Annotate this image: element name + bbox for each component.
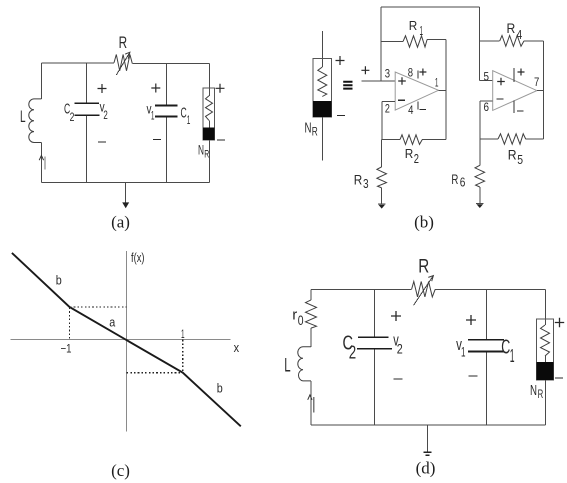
- svg-text:R: R: [354, 172, 363, 188]
- svg-text:7: 7: [534, 75, 540, 89]
- wire top-left (d): [311, 288, 412, 290]
- plus NR (a): [216, 84, 225, 93]
- top wire joining both stages: [381, 6, 479, 8]
- svg-text:R: R: [312, 125, 318, 139]
- ground (d): [427, 425, 429, 452]
- minus C2 (a): [98, 141, 106, 143]
- capacitor C1 wire: [166, 64, 168, 106]
- nonlinear resistor NR (a) wires: [209, 64, 211, 96]
- resistor R3 zigzag: [377, 167, 387, 188]
- R3 wires: [381, 140, 383, 167]
- R4 wires: [479, 40, 499, 42]
- svg-text:3: 3: [363, 176, 369, 191]
- svg-text:1: 1: [510, 346, 515, 366]
- non-inverting input wire op-amp 2: [479, 80, 492, 82]
- NR black band (a): [203, 128, 214, 140]
- svg-text:R: R: [204, 149, 209, 161]
- svg-text:1: 1: [461, 344, 466, 360]
- pin tick 8: [417, 71, 419, 79]
- current arrow I (a): [39, 155, 43, 160]
- svg-text:x: x: [234, 341, 240, 355]
- equivalence sign: [343, 82, 352, 89]
- ground below R3: [378, 203, 386, 205]
- svg-text:(c): (c): [111, 461, 130, 480]
- capacitor C2 wire: [86, 63, 88, 103]
- svg-text:2: 2: [385, 102, 390, 116]
- svg-text:R: R: [119, 33, 128, 52]
- svg-text:f(x): f(x): [131, 251, 145, 265]
- minus NR (d): [555, 377, 563, 379]
- svg-text:−1: −1: [61, 342, 72, 356]
- inverting input wire op-amp 2: [480, 100, 493, 102]
- plus pin8 annotation: [419, 69, 426, 76]
- minus NR (a): [217, 139, 225, 141]
- inductor L (d): [310, 328, 312, 347]
- wire bottom (d): [311, 424, 545, 426]
- pin tick 4: [417, 102, 419, 110]
- op-amp U2 triangle: [493, 71, 537, 111]
- inductor L with left wire: [40, 63, 42, 99]
- svg-text:4: 4: [516, 27, 522, 42]
- dotted drop line at x=1: [182, 340, 184, 373]
- pin tick bottom op-amp 2: [513, 101, 515, 113]
- plus NR symbol (b): [336, 56, 345, 65]
- minus inside op-amp 1: [398, 99, 405, 101]
- right rail op-amp 2: [543, 41, 545, 139]
- svg-text:6: 6: [460, 175, 466, 189]
- svg-text:2: 2: [70, 110, 75, 124]
- svg-text:b: b: [56, 274, 62, 288]
- svg-text:R: R: [508, 147, 517, 163]
- svg-text:2: 2: [414, 152, 419, 166]
- svg-text:5: 5: [517, 152, 523, 167]
- svg-text:b: b: [217, 382, 223, 396]
- plus input (b): [361, 66, 369, 74]
- plus NR (d): [555, 318, 564, 327]
- svg-text:8: 8: [408, 66, 414, 80]
- svg-text:R: R: [507, 20, 516, 36]
- NR zigzag (a): [206, 96, 213, 121]
- svg-text:N: N: [530, 382, 537, 399]
- svg-text:L: L: [20, 107, 26, 126]
- right rail op-amp 1: [445, 40, 447, 140]
- svg-text:R: R: [418, 257, 429, 278]
- output wire op-amp 1: [439, 89, 447, 91]
- R1 feedback wires: [381, 41, 403, 43]
- R2 rail wires: [382, 139, 400, 141]
- left rail op-amp 1: [380, 7, 382, 81]
- ground (a): [125, 183, 127, 204]
- wire bottom (a): [41, 182, 209, 184]
- svg-text:(a): (a): [111, 213, 130, 232]
- resistor R6 zigzag: [475, 165, 485, 187]
- svg-text:1: 1: [151, 111, 155, 123]
- svg-text:L: L: [284, 356, 290, 377]
- NR symbol wire top (b): [321, 31, 323, 67]
- NR box (d): [536, 319, 553, 380]
- resistor R1 zigzag: [403, 36, 427, 47]
- R6 wires: [479, 139, 481, 165]
- dotted drop line at x=-1: [69, 308, 71, 340]
- minus C2 (d): [394, 378, 403, 380]
- svg-text:a: a: [109, 316, 115, 330]
- NR zigzag (d): [541, 325, 550, 356]
- output wire op-amp 2: [537, 90, 544, 92]
- nonlinear resistor NR wires (d): [544, 289, 546, 325]
- x axis: [11, 339, 231, 341]
- svg-text:4: 4: [408, 103, 414, 117]
- svg-text:1: 1: [181, 327, 185, 341]
- input wire to op-amp 1: [361, 80, 395, 82]
- capacitor C2 wires (d): [373, 289, 375, 337]
- capacitor C1 plates: [155, 105, 178, 107]
- wire top-right (d): [435, 288, 545, 290]
- ground below R6: [476, 203, 484, 205]
- piecewise-linear curve f(x): [12, 253, 241, 426]
- capacitor C1 wires (d): [485, 289, 487, 339]
- svg-text:2: 2: [397, 341, 403, 357]
- NR box (a): [203, 88, 214, 140]
- dotted level line right breakpoint: [127, 372, 183, 374]
- NR black band (d): [536, 362, 553, 380]
- svg-text:(b): (b): [414, 213, 434, 232]
- svg-text:R: R: [538, 387, 544, 401]
- resistor R4 zigzag: [500, 36, 524, 47]
- resistor r0 wires: [310, 289, 312, 300]
- svg-text:1: 1: [187, 113, 191, 127]
- wire top-left (a): [41, 62, 114, 64]
- wire top-right (a): [132, 63, 209, 65]
- minus bottom annotation op-amp 2: [517, 110, 524, 112]
- plus inside op-amp 1: [398, 77, 406, 85]
- minus inside op-amp 2: [497, 98, 504, 100]
- dotted level line left breakpoint: [70, 306, 127, 308]
- NR symbol zigzag (b): [318, 67, 327, 97]
- R5 rail wires: [480, 138, 498, 140]
- resistor R (variable): [114, 55, 132, 71]
- op-amp U1 triangle: [395, 72, 438, 110]
- svg-text:1: 1: [435, 76, 439, 90]
- svg-text:R: R: [409, 18, 418, 33]
- svg-text:2: 2: [103, 110, 107, 122]
- resistor R2 zigzag: [400, 135, 422, 145]
- plus C1 (d): [466, 315, 476, 325]
- NR symbol wire bottom (b): [321, 117, 323, 161]
- plus C2 (d): [391, 311, 401, 321]
- plus top annotation op-amp 2: [518, 69, 525, 76]
- plus C2 (a): [98, 84, 107, 93]
- minus C1 (a): [153, 139, 161, 141]
- inverting input wire op-amp 1: [382, 100, 395, 102]
- svg-text:6: 6: [484, 100, 490, 114]
- capacitor C2 plates: [75, 102, 100, 104]
- plus C1 (a): [151, 84, 160, 93]
- capacitor C2 plates (d): [358, 336, 389, 338]
- svg-text:1: 1: [420, 24, 424, 38]
- NR symbol black band (b): [313, 101, 332, 117]
- resistor R (variable) (d): [412, 282, 436, 297]
- pin tick top op-amp 2: [513, 68, 515, 82]
- svg-text:0: 0: [298, 313, 304, 328]
- right stage: left rail op-amp 2: [478, 7, 480, 81]
- svg-text:r: r: [292, 307, 297, 324]
- svg-text:R: R: [405, 146, 414, 161]
- svg-text:5: 5: [484, 70, 490, 84]
- svg-text:(d): (d): [416, 459, 436, 478]
- capacitor C1 plates (d): [468, 339, 504, 341]
- minus NR symbol (b): [337, 115, 345, 117]
- minus C1 (d): [469, 375, 478, 377]
- resistor r0 zigzag: [306, 300, 317, 328]
- svg-text:2: 2: [349, 343, 356, 363]
- svg-text:N: N: [198, 142, 204, 158]
- plus inside op-amp 2: [497, 78, 505, 86]
- minus pin4 annotation: [420, 109, 427, 111]
- NR symbol box (b): [313, 59, 332, 117]
- current arrow I (d): [308, 395, 312, 400]
- resistor R5 zigzag: [498, 134, 526, 144]
- y axis: [126, 251, 128, 432]
- svg-text:3: 3: [385, 67, 391, 81]
- svg-text:N: N: [305, 120, 312, 137]
- svg-text:R: R: [451, 171, 458, 187]
